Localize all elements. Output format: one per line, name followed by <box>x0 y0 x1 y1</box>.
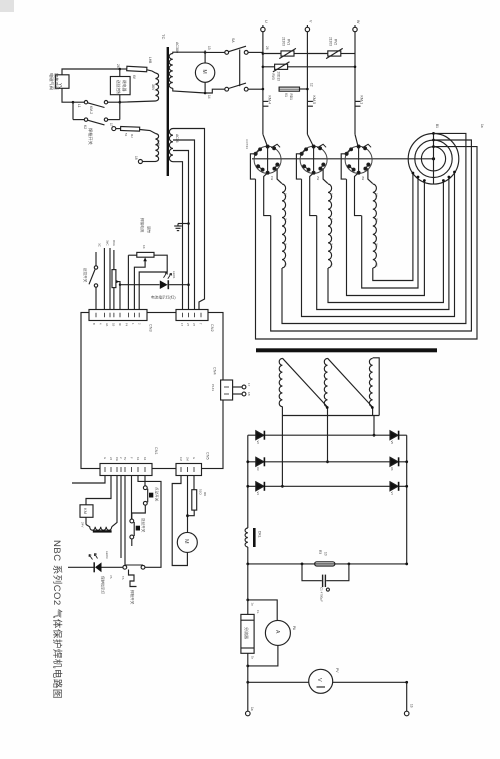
svg-text:焊枪开关: 焊枪开关 <box>130 590 135 605</box>
svg-text:RV2: RV2 <box>334 39 338 45</box>
connector CN5 <box>176 464 202 476</box>
svg-text:AC36: AC36 <box>175 134 179 143</box>
terminal 17 <box>112 127 116 131</box>
svg-text:焊枪开关: 焊枪开关 <box>87 128 94 145</box>
svg-text:RK: RK <box>203 492 207 496</box>
relay KA box <box>110 77 130 95</box>
svg-text:1a: 1a <box>251 603 255 607</box>
svg-text:V1: V1 <box>284 93 288 97</box>
svg-text:20D13: 20D13 <box>277 72 281 82</box>
wire SA1 to phase L1 <box>248 51 263 53</box>
transformer TC core <box>167 47 169 176</box>
svg-text:K2: K2 <box>83 125 87 129</box>
wire pin3 to TB <box>112 476 117 527</box>
diode V7 <box>390 482 399 491</box>
svg-text:LED3: LED3 <box>105 551 109 559</box>
svg-text:B1: B1 <box>435 124 439 128</box>
winding S2 AC36 (right lower) with taps <box>169 129 173 162</box>
phase drop c <box>373 416 375 436</box>
wire feed motor M <box>177 532 197 552</box>
pin labels CN3 <box>92 323 142 327</box>
stub pin4 <box>120 476 122 559</box>
tap wires to CN2 <box>173 129 205 310</box>
svg-text:RV1: RV1 <box>287 39 291 45</box>
wire CN5 pinB to motor <box>187 476 189 533</box>
svg-text:M: M <box>183 539 189 544</box>
wire P1 top <box>173 52 205 53</box>
svg-text:14: 14 <box>207 95 211 99</box>
svg-text:RV3: RV3 <box>271 74 275 80</box>
svg-text:V5: V5 <box>390 441 394 445</box>
LED1 current indicator <box>120 284 160 286</box>
winding P1 380V primary (right) <box>169 54 173 89</box>
svg-text:17: 17 <box>109 123 113 127</box>
terminal U <box>261 27 265 31</box>
svg-text:焊接电流: 焊接电流 <box>140 218 145 233</box>
contact row1 KM-2 <box>73 101 84 103</box>
svg-text:V6: V6 <box>390 467 394 471</box>
svg-text:1K: 1K <box>142 245 146 249</box>
svg-text:18: 18 <box>134 156 138 160</box>
svg-text:LED1: LED1 <box>172 271 176 279</box>
svg-text:2W: 2W <box>374 218 378 222</box>
svg-text:C1 4700μF: C1 4700μF <box>320 587 324 602</box>
svg-text:DKL: DKL <box>258 531 262 538</box>
svg-text:KM-1: KM-1 <box>360 96 364 105</box>
svg-text:CN3: CN3 <box>149 324 153 332</box>
diode V4 <box>256 482 265 491</box>
svg-text:RD1: RD1 <box>289 94 293 101</box>
saturable transformer winding unit 3 <box>341 154 378 268</box>
svg-text:CN1: CN1 <box>154 447 158 455</box>
terminal V <box>305 27 309 31</box>
svg-text:调节: 调节 <box>147 226 152 234</box>
fuse FU1 <box>262 88 265 91</box>
thyristor module V1 <box>254 144 281 174</box>
svg-text:4U: 4U <box>284 263 288 266</box>
saturable transformer winding unit 1 <box>250 154 287 268</box>
junction dot LED line <box>187 283 190 286</box>
diode V2 <box>256 431 265 440</box>
svg-text:17: 17 <box>247 383 251 387</box>
svg-text:NBC 系列CO2 气体保护焊机电路图: NBC 系列CO2 气体保护焊机电路图 <box>51 540 63 699</box>
title text NBC series CO2 welder <box>51 540 63 699</box>
heater transformer TB coil <box>85 517 87 524</box>
filter choke DKL <box>245 528 248 547</box>
nested winding leads: unit3 wires to core <box>373 173 413 281</box>
wire P1 bottom <box>173 88 205 93</box>
switch SA pole1 <box>205 51 224 53</box>
svg-text:V: V <box>316 678 322 682</box>
shunt FL <box>241 614 254 653</box>
svg-text:LHB: LHB <box>148 57 152 63</box>
wire pin7 return loop <box>138 476 161 568</box>
svg-text:近控开关: 近控开关 <box>83 268 88 283</box>
secondary winding S1 with slider <box>279 358 282 406</box>
nested winding leads: unit1 wires via top stubs <box>282 133 466 323</box>
svg-text:3T: 3T <box>192 323 196 326</box>
nested winding leads: unit2 wires to core <box>328 181 443 303</box>
right DC bus <box>406 435 408 564</box>
svg-text:V2: V2 <box>256 441 260 445</box>
svg-text:RJ: RJ <box>130 134 134 138</box>
torch trigger button TA <box>123 565 127 569</box>
svg-text:电流指示灯(红): 电流指示灯(红) <box>151 295 176 300</box>
rectifier bus 2 <box>248 461 407 463</box>
resistor R5 motor branch <box>193 476 195 490</box>
svg-text:3bC: 3bC <box>106 240 110 246</box>
pushbutton SB1 <box>143 486 147 490</box>
svg-text:1V: 1V <box>330 193 334 196</box>
secondary common line <box>282 415 379 417</box>
net stub 24V <box>109 248 111 310</box>
svg-text:PV: PV <box>335 668 339 673</box>
svg-text:继电器: 继电器 <box>122 80 127 92</box>
left DC bus <box>247 435 249 528</box>
ammeter PA <box>265 620 290 645</box>
pilot motor M1 circle <box>195 63 214 82</box>
ammeter PA loop <box>246 599 249 602</box>
voltmeter PV <box>309 669 333 693</box>
svg-text:1W: 1W <box>115 457 119 461</box>
svg-text:V3: V3 <box>256 467 260 471</box>
svg-text:2T: 2T <box>186 323 190 326</box>
thyristor module V2 <box>300 144 327 174</box>
svg-text:5V: 5V <box>123 457 127 460</box>
svg-text:G: G <box>103 457 107 459</box>
wire pin6 to feed button SB2 <box>131 476 133 520</box>
secondary winding S3 <box>369 358 372 406</box>
svg-text:送丝开关: 送丝开关 <box>141 518 146 533</box>
svg-text:K1: K1 <box>136 457 140 461</box>
svg-text:1M: 1M <box>179 457 183 461</box>
svg-text:V4: V4 <box>256 492 260 496</box>
svg-text:加热减速: 加热减速 <box>53 73 60 91</box>
svg-text:分流器: 分流器 <box>244 627 250 639</box>
svg-text:12: 12 <box>310 83 314 87</box>
svg-text:3W: 3W <box>361 176 365 181</box>
svg-text:24V: 24V <box>81 522 85 527</box>
svg-text:36V: 36V <box>151 84 155 91</box>
left bus to output terminal <box>247 653 249 711</box>
winding W1 36V (left) <box>147 70 156 73</box>
svg-text:6.3V: 6.3V <box>156 140 160 148</box>
wire pin1 to LED2 line <box>72 476 105 484</box>
svg-text:W: W <box>356 20 360 24</box>
connector CN2 <box>176 310 208 321</box>
switch SA pole2 <box>205 89 224 93</box>
connector CN4 <box>221 380 233 400</box>
control PCB outline <box>81 313 223 469</box>
resistor R1 (heater feed) <box>127 66 147 71</box>
LED2 protection lamp <box>68 566 94 568</box>
svg-text:51: 51 <box>124 133 128 137</box>
svg-text:2V: 2V <box>330 218 334 221</box>
wire SA2 to phase L1 <box>248 88 263 90</box>
svg-text:点动开关: 点动开关 <box>155 487 160 502</box>
potentiometer RP2 (voltage) <box>113 288 115 310</box>
ground <box>187 222 190 225</box>
node <box>72 101 75 104</box>
svg-text:1W: 1W <box>270 176 274 181</box>
svg-text:1B: 1B <box>112 323 116 326</box>
resistor R3 on rail <box>315 562 335 566</box>
wire CN5 pinA to motor loop <box>172 476 187 566</box>
phase line L2 <box>306 32 308 102</box>
contact row2 K2 torch <box>72 102 74 119</box>
svg-text:送丝控制: 送丝控制 <box>116 80 121 95</box>
svg-text:CN4: CN4 <box>213 367 217 375</box>
output terminal - <box>404 711 409 716</box>
varistor RV1 <box>262 52 265 55</box>
wire YV bottom <box>62 88 73 102</box>
svg-text:KM-4: KM-4 <box>268 96 272 105</box>
svg-text:L1: L1 <box>77 104 81 108</box>
gas valve YV box <box>56 75 70 89</box>
svg-text:B: B <box>92 323 96 325</box>
svg-text:保护指示灯: 保护指示灯 <box>101 576 106 594</box>
diode V3 <box>256 457 265 466</box>
svg-text:21303: 21303 <box>329 37 333 46</box>
rectifier bus 3 <box>248 485 407 487</box>
svg-text:7A: 7A <box>109 575 113 579</box>
diode V5 <box>390 431 399 440</box>
svg-text:1B: 1B <box>247 392 251 396</box>
phase drop b <box>327 416 329 462</box>
stub dots on top of rings <box>432 132 435 135</box>
svg-text:2M: 2M <box>186 457 190 461</box>
svg-text:KM-2: KM-2 <box>89 106 93 114</box>
svg-text:M: M <box>201 70 207 74</box>
node 26 <box>119 68 122 71</box>
svg-text:SA: SA <box>231 38 235 43</box>
thick core bar separator <box>256 348 437 352</box>
svg-text:3W: 3W <box>374 243 378 247</box>
svg-text:1W: 1W <box>374 193 378 197</box>
svg-text:V7: V7 <box>390 492 394 496</box>
thyristor module V3 <box>345 144 372 174</box>
svg-text:电磁气阀: 电磁气阀 <box>48 73 55 90</box>
connector CN3 <box>89 310 147 321</box>
pushbutton SB2 <box>130 519 134 523</box>
svg-text:K2: K2 <box>143 457 147 461</box>
saturable transformer winding unit 2 <box>296 154 333 268</box>
svg-text:1b: 1b <box>251 656 255 660</box>
svg-text:KM: KM <box>83 508 88 514</box>
svg-text:KM-5: KM-5 <box>312 96 316 105</box>
toroidal core L1 rings <box>408 134 459 185</box>
output terminal + <box>246 711 251 716</box>
svg-text:P143: P143 <box>211 384 215 391</box>
contactor contact KM-5 <box>307 100 313 102</box>
right bus to output terminal <box>406 682 408 711</box>
svg-text:1b: 1b <box>410 704 414 708</box>
svg-text:3V: 3V <box>330 243 334 246</box>
svg-text:R3: R3 <box>318 550 322 554</box>
svg-text:4W: 4W <box>374 263 378 267</box>
slanted entries into SCR modules <box>263 134 268 146</box>
svg-text:26: 26 <box>116 64 120 68</box>
svg-text:13: 13 <box>207 46 211 50</box>
svg-text:3A: 3A <box>105 323 109 326</box>
capacitor C1 branch <box>302 564 322 581</box>
svg-text:U: U <box>264 20 268 23</box>
faint scan smudge top-left corner <box>0 0 14 12</box>
svg-text:51Ω: 51Ω <box>199 489 203 495</box>
relay coil KM <box>80 505 93 518</box>
secondary winding S2 with slider <box>324 358 327 406</box>
svg-text:4F: 4F <box>118 323 122 326</box>
resistor R2 6.3V row <box>121 126 140 131</box>
phase line L1 <box>262 32 264 102</box>
wire W1 bottom to relay row <box>120 101 156 102</box>
phase line L3 <box>354 32 356 102</box>
svg-text:1T: 1T <box>180 323 184 326</box>
wire top rail y=69 <box>62 69 120 75</box>
potentiometer RP1 (current adjust) <box>127 255 129 309</box>
svg-text:CN2: CN2 <box>210 324 214 332</box>
contactor contact KM-1 <box>355 100 361 102</box>
wire pin2 to relay KM <box>86 476 111 505</box>
winding W2 6.3V (left) <box>140 130 156 134</box>
rectifier bus 1 <box>248 434 407 436</box>
net stub 36V <box>103 248 105 310</box>
svg-text:1a: 1a <box>250 707 254 711</box>
svg-text:TC: TC <box>161 34 166 39</box>
svg-text:CN5: CN5 <box>206 452 210 460</box>
wire pin8 to jog button SB1 <box>144 476 146 486</box>
svg-text:26: 26 <box>265 46 269 50</box>
svg-text:2U: 2U <box>284 218 288 221</box>
vertical diameter <box>433 133 435 184</box>
terminal 18 <box>138 160 142 164</box>
common gate bus through modules <box>252 158 434 160</box>
phase drop a <box>281 416 283 487</box>
svg-text:3 CT24: 3 CT24 <box>245 139 249 149</box>
svg-text:FL: FL <box>256 610 260 614</box>
svg-text:21303: 21303 <box>282 37 286 46</box>
SA linkage <box>239 50 241 87</box>
connector CN1 <box>100 464 152 476</box>
svg-text:1a: 1a <box>480 124 484 128</box>
svg-text:1U: 1U <box>284 193 288 196</box>
svg-text:AC380: AC380 <box>175 42 179 53</box>
voltmeter line <box>248 681 407 683</box>
wire KA bottom <box>119 95 121 103</box>
CN4 leads to gun sockets <box>233 386 242 388</box>
contactor contact KM-4 <box>263 100 269 102</box>
diode V6 <box>390 457 399 466</box>
terminal W <box>353 27 357 31</box>
remote/local switch S1 <box>95 287 97 309</box>
svg-text:4V: 4V <box>330 263 334 266</box>
svg-text:D6A: D6A <box>112 240 116 246</box>
wire KA top <box>119 69 121 77</box>
varistor RV3 row <box>262 66 265 69</box>
svg-text:G: G <box>192 457 196 459</box>
svg-text:TA: TA <box>121 576 125 580</box>
output top rail <box>248 563 407 565</box>
varistor RV2 <box>307 53 327 55</box>
svg-text:10: 10 <box>324 552 328 556</box>
wire pin5 to torch button <box>124 476 126 566</box>
svg-text:2W: 2W <box>316 176 320 181</box>
svg-text:3U: 3U <box>284 243 288 246</box>
